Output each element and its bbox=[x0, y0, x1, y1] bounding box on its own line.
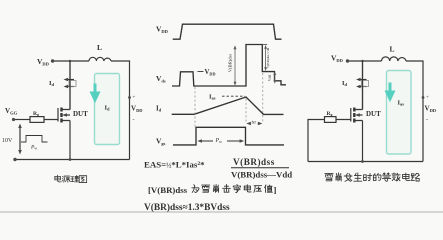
svg-text:DUT: DUT bbox=[366, 110, 381, 118]
svg-text:V(BR)dss-Vdd: V(BR)dss-Vdd bbox=[266, 47, 270, 68]
svg-text:10V: 10V bbox=[2, 138, 13, 144]
annotation V(BR)dss-Vdd arrow bbox=[262, 45, 270, 72]
wire gate return bbox=[308, 120, 325, 162]
transistor DUT mosfet bbox=[44, 108, 58, 122]
time arrow ta bbox=[246, 120, 262, 126]
level dash VDD bbox=[198, 71, 204, 73]
waveform Vds trace bbox=[172, 45, 286, 87]
annotation V(BR)dss arrow bbox=[228, 45, 237, 86]
level label Ias bbox=[209, 94, 216, 101]
node junction drain bbox=[361, 60, 363, 62]
svg-text:+: + bbox=[133, 96, 136, 101]
svg-text:L: L bbox=[390, 45, 395, 54]
svg-text:V(BR)dss≈1.3*BVdss: V(BR)dss≈1.3*BVdss bbox=[144, 202, 230, 213]
waveform VDD trace bbox=[173, 24, 282, 39]
wire top rail bbox=[349, 60, 382, 62]
waveform Vgs bbox=[156, 127, 284, 146]
VDD terminal dot bbox=[51, 59, 54, 62]
svg-text:+: + bbox=[426, 96, 429, 101]
bottom separator line bbox=[0, 211, 443, 213]
node VDD left label bbox=[331, 54, 344, 64]
svg-text:-: - bbox=[426, 117, 428, 123]
svg-text:Vdd: Vdd bbox=[268, 75, 272, 82]
node VDD right label bbox=[128, 96, 131, 99]
ground rail wire bbox=[308, 161, 423, 163]
svg-text:V(BR)dss: V(BR)dss bbox=[228, 54, 233, 73]
transistor DUT mosfet bbox=[336, 108, 351, 122]
node junction drain bbox=[69, 60, 71, 62]
caption 电源理图 bbox=[55, 175, 87, 182]
pulse source V1 bbox=[19, 127, 21, 151]
svg-text:ta: ta bbox=[252, 120, 257, 126]
svg-text:[V(BR)dss: [V(BR)dss bbox=[148, 185, 188, 195]
svg-text:-: - bbox=[133, 117, 135, 123]
wire top rail bbox=[54, 60, 89, 62]
current loop Ias (teal) bbox=[385, 71, 412, 155]
current loop Id (teal) bbox=[90, 74, 120, 145]
resistor Rg bbox=[30, 117, 44, 123]
svg-text:V(BR)dss—Vdd: V(BR)dss—Vdd bbox=[231, 169, 292, 179]
svg-text:Pw: Pw bbox=[30, 145, 37, 151]
wire bbox=[406, 61, 423, 162]
node VDD left label bbox=[37, 57, 50, 67]
wire drain bbox=[362, 61, 364, 110]
ground rail wire bbox=[15, 159, 130, 161]
VDD terminal dot bbox=[346, 59, 349, 62]
wire drain bbox=[69, 61, 71, 110]
waveform Vds label bbox=[156, 74, 166, 84]
node VGG label bbox=[5, 107, 18, 116]
pulse width arrow Pw bbox=[199, 140, 244, 142]
current arrows Id bbox=[66, 79, 74, 81]
svg-text:V(BR)dss: V(BR)dss bbox=[233, 157, 275, 167]
caption 雪崩发生时的等效电路 bbox=[325, 173, 420, 182]
dashed guide lines bbox=[195, 73, 263, 127]
svg-text:DUT: DUT bbox=[73, 110, 88, 118]
resistor Rg bbox=[325, 117, 337, 123]
waveform Id bbox=[156, 94, 284, 115]
svg-text:]: ] bbox=[274, 185, 277, 195]
node VDD right label bbox=[422, 96, 425, 99]
svg-text:Pw: Pw bbox=[215, 138, 223, 144]
node VGG dot bbox=[12, 118, 15, 121]
current arrows Id bbox=[359, 79, 367, 81]
svg-text:L: L bbox=[97, 43, 102, 52]
waveform VDD label bbox=[156, 25, 169, 35]
svg-text:Rg: Rg bbox=[33, 111, 39, 117]
annotation Vdd arrow bbox=[268, 72, 276, 84]
svg-text:EAS=½*L*Ias2*: EAS=½*L*Ias2* bbox=[144, 159, 205, 169]
inductor L2 bbox=[382, 57, 407, 61]
svg-text:Rg: Rg bbox=[327, 111, 333, 117]
inductor L1 bbox=[89, 57, 111, 61]
wire bbox=[111, 61, 130, 160]
